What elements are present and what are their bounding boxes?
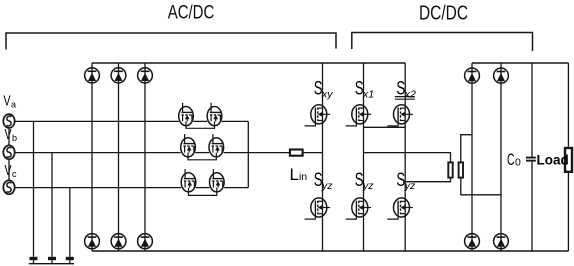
diode D9	[465, 234, 480, 249]
wire phase A	[15, 120, 179, 122]
transistor Q1a	[179, 103, 194, 126]
svg-text:yz: yz	[362, 180, 374, 192]
transistor Sxy	[305, 105, 331, 126]
transistor Sx2	[387, 105, 413, 126]
wire matrix output node	[247, 121, 249, 187]
label Syz2	[355, 170, 375, 192]
transistor Syz2	[346, 198, 372, 219]
diode D10	[494, 234, 509, 249]
label Load	[537, 153, 569, 168]
wire primary top lead	[364, 153, 451, 163]
svg-text:b: b	[12, 133, 17, 143]
wire bridge column 1	[322, 63, 324, 251]
wire diode column 1	[91, 63, 93, 251]
wire source link Q2a-Q2b	[188, 153, 216, 160]
wire tap phase B	[51, 153, 53, 257]
diode D4 (bottom)	[85, 234, 100, 249]
svg-text:yz: yz	[321, 180, 333, 192]
wire bridge column 3	[404, 63, 406, 251]
svg-text:a: a	[11, 99, 16, 109]
label Lin	[290, 165, 308, 184]
wire bridge column 2	[363, 63, 365, 251]
diode D1 (top)	[85, 68, 100, 83]
svg-text:x1: x1	[362, 88, 374, 100]
terminal bar A	[30, 257, 38, 264]
diode D2 (top)	[111, 68, 126, 83]
transistor Q1b	[207, 103, 222, 126]
wire bottom connector	[29, 263, 74, 265]
transistor Q2b	[209, 134, 224, 157]
label Vc	[5, 163, 18, 179]
wire top bus (DC side)	[472, 62, 568, 64]
label Va	[4, 93, 17, 109]
wire bridge link col2-col3	[364, 126, 406, 128]
wire rectifier column 1	[471, 63, 473, 251]
wire top bus (AC side)	[92, 62, 405, 64]
terminal bar B	[48, 257, 56, 264]
wire tap phase C	[69, 188, 71, 257]
wire tap phase A	[33, 121, 35, 256]
svg-text:Load: Load	[537, 153, 569, 168]
inductor Lin	[290, 150, 303, 156]
label Sxy	[314, 79, 334, 101]
label Sx2	[395, 79, 416, 101]
wire phase C to node	[224, 187, 248, 189]
label C0	[507, 150, 521, 169]
svg-text:V: V	[5, 127, 12, 143]
title AC/DC	[168, 2, 215, 24]
wire secondary top lead	[461, 135, 472, 163]
wire source link Q3a-Q3b	[189, 188, 217, 196]
diode D8	[494, 68, 509, 83]
wire phase A to node	[222, 120, 249, 122]
wire diode column 3	[144, 63, 146, 251]
wire phase B to inductor	[224, 152, 290, 154]
source Vb	[3, 145, 14, 159]
wire phase A matrix link	[193, 120, 207, 122]
wire source chain	[8, 128, 10, 180]
diode D6 (bottom)	[138, 234, 153, 249]
wire C0 bottom	[531, 162, 533, 251]
svg-text:xy: xy	[321, 88, 333, 100]
wire primary bottom lead	[405, 178, 450, 182]
bracket AC/DC section	[6, 33, 336, 50]
svg-text:V: V	[5, 163, 12, 179]
svg-text:c: c	[12, 169, 17, 179]
terminal bar C	[66, 257, 74, 264]
transistor Q2a	[181, 134, 196, 157]
label Syz1	[314, 170, 334, 192]
wire rectifier column 2	[500, 63, 502, 251]
wire diode column 2	[118, 63, 120, 251]
svg-text:0: 0	[515, 156, 521, 168]
wire source link Q1a-Q1b	[186, 121, 215, 128]
wire load top	[567, 63, 569, 147]
label Sx1	[355, 79, 374, 101]
source Vc	[3, 180, 14, 194]
resistor Load	[565, 148, 572, 172]
diode D7	[465, 68, 480, 83]
transistor Syz3	[387, 198, 413, 219]
bracket DC/DC section	[352, 33, 533, 52]
label Syz3	[396, 170, 416, 192]
label Vb	[5, 127, 18, 143]
wire C0 top	[531, 63, 533, 157]
wire phase B	[15, 152, 181, 154]
svg-text:C: C	[507, 150, 515, 169]
transistor Q3b	[210, 169, 225, 192]
wire inductor to bridge	[303, 152, 323, 154]
source Va	[3, 114, 14, 128]
svg-text:AC/DC: AC/DC	[168, 2, 215, 24]
wire phase C	[15, 187, 182, 189]
wire load bottom	[567, 173, 569, 251]
wire secondary bottom lead	[461, 178, 501, 195]
transformer T1 secondary	[459, 162, 463, 177]
diode D5 (bottom)	[111, 234, 126, 249]
wire phase C matrix link	[196, 187, 210, 189]
capacitor C0	[526, 157, 536, 162]
transistor Sx1	[346, 105, 372, 126]
wire phase B matrix link	[195, 152, 209, 154]
title DC/DC	[419, 3, 468, 25]
diode D3 (top)	[138, 68, 153, 83]
transformer T1 primary	[448, 162, 452, 177]
wire bottom bus	[92, 250, 568, 252]
svg-text:x2: x2	[404, 88, 416, 100]
svg-text:V: V	[4, 93, 11, 109]
svg-text:DC/DC: DC/DC	[419, 3, 468, 25]
transistor Q3a	[181, 169, 196, 192]
transistor Syz1	[305, 198, 331, 219]
